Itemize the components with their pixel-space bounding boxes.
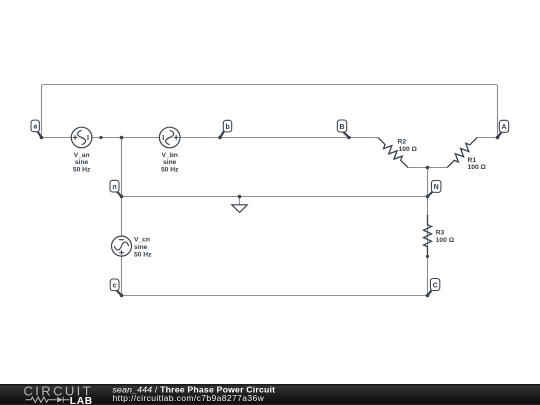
node b: [218, 120, 232, 139]
svg-text:C: C: [433, 282, 438, 289]
svg-text:V_an: V_an: [74, 152, 90, 159]
svg-text:A: A: [501, 124, 506, 131]
node C: [426, 279, 440, 298]
svg-text:V_bn: V_bn: [162, 152, 178, 159]
svg-text:B: B: [339, 124, 344, 131]
svg-text:50 Hz: 50 Hz: [73, 167, 91, 174]
voltage source V_bn: [159, 127, 180, 173]
wire N to R3 and R3 to C: [427, 197, 429, 296]
svg-text:sine: sine: [163, 159, 177, 166]
wire phase n vertical through V_cn to c: [121, 138, 123, 296]
wire load center drop to N: [427, 168, 429, 197]
junction wire dot after V_an: [99, 136, 102, 139]
svg-text:b: b: [225, 124, 229, 131]
ground: [232, 195, 247, 213]
node A: [496, 120, 509, 139]
wire phase a/b horizontal: [42, 137, 379, 139]
svg-text:100 Ω: 100 Ω: [436, 237, 455, 244]
svg-text:LAB: LAB: [70, 396, 93, 405]
node B: [337, 120, 351, 139]
svg-text:a: a: [33, 124, 37, 131]
svg-text:50 Hz: 50 Hz: [161, 167, 179, 174]
svg-text:sine: sine: [75, 159, 89, 166]
node n: [110, 180, 123, 198]
junction T at phase n branch: [120, 136, 124, 140]
svg-text:100 Ω: 100 Ω: [468, 164, 487, 171]
junction R3 bottom: [426, 255, 429, 258]
svg-text:R2: R2: [398, 139, 407, 146]
svg-text:R3: R3: [436, 230, 445, 237]
svg-text:100 Ω: 100 Ω: [399, 146, 418, 153]
resistor R3: [424, 215, 455, 257]
svg-text:N: N: [434, 184, 439, 191]
footer bar: [0, 384, 540, 405]
wire neutral rail n to N: [122, 196, 428, 198]
svg-text:http://circuitlab.com/c7b9a827: http://circuitlab.com/c7b9a8277a36w: [113, 393, 265, 403]
node N: [426, 180, 441, 198]
wire c rail: [122, 295, 428, 297]
svg-text:c: c: [113, 283, 117, 290]
wire top rail with left and right risers: [42, 85, 498, 138]
svg-text:n: n: [112, 184, 116, 191]
svg-text:50 Hz: 50 Hz: [134, 252, 152, 259]
svg-text:V_cn: V_cn: [134, 237, 150, 244]
voltage source V_an: [71, 127, 92, 173]
resistor R2: [375, 135, 417, 171]
junction T at load center: [426, 166, 430, 170]
node a: [31, 120, 43, 139]
footer logo wire with resistor and diode: [26, 397, 70, 403]
resistor R1: [444, 135, 486, 171]
voltage source V_cn: [112, 236, 153, 259]
node c: [110, 279, 123, 297]
wire R1 to node A: [477, 137, 497, 139]
svg-text:sine: sine: [134, 244, 148, 251]
wire between R2 and R1: [408, 167, 447, 169]
